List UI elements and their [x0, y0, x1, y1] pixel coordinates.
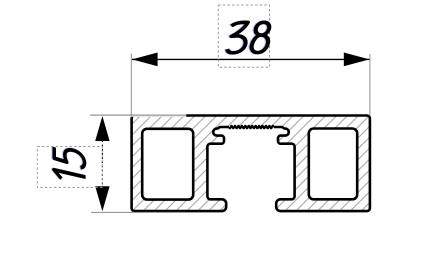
- dimension 38: dashed selection box: [218, 5, 269, 67]
- serrated (knurled) ceiling of centre slot: [229, 126, 274, 129]
- hole left: [142, 129, 193, 200]
- dimension 15: arrow up: [95, 116, 109, 141]
- dimension 15: top extension line / grey top edge segment: [90, 114, 186, 116]
- profile body: aluminium extrusion cross-section with T-slot cavity (hatched fill): [132, 116, 370, 212]
- dimension 15: extension line bottom: [91, 211, 185, 213]
- dimension 38: extension line right: [369, 54, 371, 116]
- profile outline stroke (serration zone skipped): [132, 116, 370, 212]
- dimension 38: extension line left: [130, 54, 132, 118]
- dimension 38: text: [225, 22, 271, 53]
- dimension 15: dashed selection box: [37, 147, 102, 188]
- dimension 15: arrow down: [95, 186, 109, 211]
- dimension 38: arrow left: [132, 53, 158, 67]
- white cover over top-left outer edge: [130, 113, 186, 117]
- hole right: [309, 129, 357, 200]
- dimension 38: dimension line: [132, 58, 369, 60]
- dimension 15: text (rotated): [53, 146, 86, 185]
- dimension 38: arrow right: [344, 53, 370, 67]
- dimension 15: dotted dimension line: [101, 141, 103, 187]
